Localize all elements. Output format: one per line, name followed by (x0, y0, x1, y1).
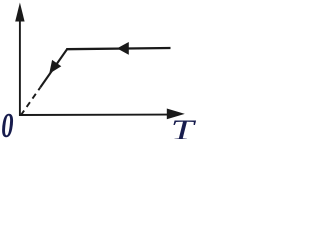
y-axis arrowhead (15, 3, 24, 22)
x-axis shaft (19, 114, 168, 116)
y-axis shaft (19, 19, 21, 116)
dashed diagonal segment (21, 87, 41, 115)
svg-text:0: 0 (1, 106, 13, 139)
diagonal arrowhead (49, 60, 61, 74)
solid diagonal segment (40, 49, 67, 87)
x-axis arrowhead (167, 109, 185, 120)
svg-text:T: T (171, 113, 196, 139)
plateau line (66, 48, 170, 49)
plateau arrowhead (117, 42, 129, 55)
